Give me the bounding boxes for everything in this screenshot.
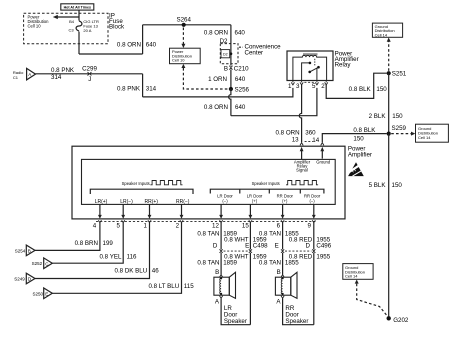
power amplifier outer box xyxy=(72,146,345,219)
svg-text:5 BLK: 5 BLK xyxy=(369,182,387,189)
amp bottom connector dashes xyxy=(96,220,316,222)
wire through convenience center xyxy=(230,44,232,66)
fuse F13 CIG LTR 20A xyxy=(76,21,82,31)
svg-text:0.8 LT BLU: 0.8 LT BLU xyxy=(148,283,179,290)
connector C496 pin E xyxy=(281,249,284,253)
arrow LR(+) out xyxy=(99,204,101,215)
wire across xyxy=(79,53,143,55)
wire 0.8 TAN 1859 to speaker B xyxy=(220,253,222,275)
svg-text:15: 15 xyxy=(242,223,249,230)
wire 0.8 TAN 1855 pin6 xyxy=(282,223,284,250)
svg-text:Cell 10: Cell 10 xyxy=(172,58,185,63)
svg-text:B: B xyxy=(215,269,219,276)
wire from hot bus to fuse xyxy=(78,10,80,21)
svg-text:14: 14 xyxy=(312,137,319,144)
wire 0.8 RED 1955 down xyxy=(313,253,315,325)
svg-text:E: E xyxy=(275,242,279,249)
svg-text:115: 115 xyxy=(184,283,194,290)
dashed ref S264 to power distribution cell 10 xyxy=(182,28,184,45)
wire 0.8 TAN 1855 to speaker B xyxy=(282,253,284,275)
svg-text:314: 314 xyxy=(146,85,157,92)
dashed ref S251 to ground distribution xyxy=(388,42,390,71)
svg-text:C498: C498 xyxy=(253,242,268,249)
ref box Power Distribution Cell 10 xyxy=(170,48,201,64)
amp pin 13 xyxy=(300,143,303,146)
svg-text:B4: B4 xyxy=(69,19,75,24)
relay pin 1 xyxy=(291,81,294,85)
svg-text:S264: S264 xyxy=(176,16,191,23)
amp pin 14 xyxy=(321,143,324,146)
amp pin 6 xyxy=(281,220,284,222)
svg-text:Speaker: Speaker xyxy=(285,318,308,325)
svg-text:640: 640 xyxy=(235,76,246,83)
wire fuse down xyxy=(78,32,80,54)
splice S259 xyxy=(387,132,391,136)
connector triangle D xyxy=(26,273,35,284)
relay pin 3 xyxy=(300,81,303,85)
svg-text:116: 116 xyxy=(127,254,137,261)
svg-text:Speaker Inputs: Speaker Inputs xyxy=(252,181,280,186)
radio connector triangle A xyxy=(27,68,36,80)
svg-text:150: 150 xyxy=(353,135,364,142)
amp pin 2 xyxy=(180,220,183,222)
wire PNK to relay pin 1 xyxy=(143,88,293,97)
connector C210 pin B xyxy=(229,66,232,70)
svg-text:5: 5 xyxy=(117,223,121,230)
splice S264 xyxy=(182,23,186,27)
dashed ref G202 to ground distribution xyxy=(355,280,359,284)
arrow LR(-) out xyxy=(122,204,124,215)
svg-text:360: 360 xyxy=(305,129,316,136)
ref box Ground Distribution Cell 14 (bottom) xyxy=(343,264,373,280)
amp pin 4 xyxy=(98,220,101,222)
amp pin 1 xyxy=(148,220,151,222)
svg-text:D2: D2 xyxy=(223,53,228,57)
hot-at-all-times flag xyxy=(61,4,94,10)
arrow LR Door (-) out xyxy=(220,204,222,215)
svg-text:1 ORN: 1 ORN xyxy=(208,76,227,83)
svg-text:D: D xyxy=(213,242,218,249)
connector dashes C498 xyxy=(224,250,249,252)
svg-text:D: D xyxy=(306,242,311,249)
svg-text:Speaker Inputs: Speaker Inputs xyxy=(122,181,150,186)
svg-text:Amplifier: Amplifier xyxy=(348,151,372,158)
svg-text:1955: 1955 xyxy=(316,253,330,260)
svg-text:S251: S251 xyxy=(392,71,407,78)
svg-text:S259: S259 xyxy=(392,125,407,132)
connector dashes C496 xyxy=(285,250,311,252)
arrow RR(+) out xyxy=(149,204,151,215)
svg-text:0.8 ORN: 0.8 ORN xyxy=(276,129,300,136)
relay connector dashes xyxy=(304,81,314,83)
wire 0.8 WHT 1959 down xyxy=(249,253,251,325)
diode D2 xyxy=(221,50,232,58)
amp pin 5 xyxy=(122,220,125,222)
wire 0.8 RED 1955 pin9 xyxy=(313,223,315,250)
svg-text:46: 46 xyxy=(152,268,159,275)
svg-text:0.8 TAN: 0.8 TAN xyxy=(197,230,219,237)
dashed ref S259 to ground distribution xyxy=(391,133,411,135)
amp pin 12 xyxy=(220,220,223,222)
svg-text:Hot At All Times: Hot At All Times xyxy=(64,6,91,10)
svg-text:1855: 1855 xyxy=(285,259,299,266)
svg-text:0.8 TAN: 0.8 TAN xyxy=(259,259,281,266)
svg-text:Cell 14: Cell 14 xyxy=(375,33,388,38)
svg-text:0.8 YEL: 0.8 YEL xyxy=(99,254,121,261)
svg-text:20 A: 20 A xyxy=(83,28,91,33)
svg-text:6: 6 xyxy=(277,223,281,230)
svg-text:640: 640 xyxy=(146,41,157,48)
amp pin 15 xyxy=(249,220,252,222)
speaker terminal B xyxy=(220,275,223,277)
svg-text:0.8 BLK: 0.8 BLK xyxy=(349,86,372,93)
svg-text:2 BLK: 2 BLK xyxy=(369,113,387,120)
LR door speaker xyxy=(214,272,236,298)
svg-text:2: 2 xyxy=(176,223,180,230)
svg-text:640: 640 xyxy=(235,104,246,111)
svg-text:Center: Center xyxy=(245,49,264,56)
svg-text:150: 150 xyxy=(376,86,387,93)
svg-text:Block: Block xyxy=(109,24,125,31)
amplifier relay signal input arrow xyxy=(301,150,303,159)
svg-text:0.8 TAN: 0.8 TAN xyxy=(259,230,281,237)
svg-text:E: E xyxy=(245,242,249,249)
dashed ref box to S256 xyxy=(181,64,185,68)
amp pin 9 xyxy=(312,220,315,222)
svg-text:0.8 PNK: 0.8 PNK xyxy=(117,85,141,92)
svg-text:Signal: Signal xyxy=(296,168,308,173)
svg-text:0.8 BRN: 0.8 BRN xyxy=(75,240,98,247)
ref box Ground Distribution Cell 14 (top) xyxy=(372,23,402,37)
splice S251 xyxy=(387,71,391,75)
connector C498 pin D xyxy=(220,249,223,253)
svg-text:(−): (−) xyxy=(222,198,228,203)
svg-text:5: 5 xyxy=(312,83,316,90)
wire relay pin3 ORN 360 to amp pin 13 (hop) xyxy=(299,85,301,142)
svg-text:C1: C1 xyxy=(13,75,19,80)
wire 0.8 BLK 150 amp pin14 to S259 xyxy=(322,134,386,143)
relay pin 2 xyxy=(325,81,328,85)
wire 2 BLK 150 xyxy=(388,73,390,133)
ground input arrow xyxy=(321,150,323,159)
wire 0.8 YEL 116 pin5 to C xyxy=(52,223,123,264)
svg-text:(+): (+) xyxy=(282,198,288,203)
svg-text:0.8 BLK: 0.8 BLK xyxy=(353,127,376,134)
RR door speaker xyxy=(275,272,297,298)
ref box Ground Distribution Cell 14 (middle) xyxy=(416,124,449,142)
svg-text:(+): (+) xyxy=(252,198,258,203)
svg-text:13: 13 xyxy=(292,137,299,144)
svg-text:640: 640 xyxy=(235,29,246,36)
convenience center (dashed box) xyxy=(220,44,238,64)
speaker terminal A xyxy=(281,296,284,298)
wire speaker A return xyxy=(283,298,314,325)
IP fuse block (dashed box) xyxy=(24,13,108,43)
svg-text:LR(+): LR(+) xyxy=(95,199,108,205)
svg-text:0.8 ORN: 0.8 ORN xyxy=(204,29,228,36)
wire top bus xyxy=(143,24,231,26)
connector triangle E xyxy=(44,288,53,299)
svg-text:0.8 DK BLU: 0.8 DK BLU xyxy=(115,268,148,275)
svg-text:Cell 10: Cell 10 xyxy=(28,24,42,29)
ESD symbol xyxy=(347,162,365,176)
svg-text:RR(−): RR(−) xyxy=(176,199,190,205)
arrow to power distribution xyxy=(58,16,80,18)
svg-text:E: E xyxy=(45,292,48,297)
wire 5 BLK 150 to G202 xyxy=(388,134,390,317)
speaker terminal A xyxy=(220,296,223,298)
arrow RR Door (-) out xyxy=(313,204,315,215)
amp top connector dashes xyxy=(305,140,313,142)
svg-text:RR(+): RR(+) xyxy=(145,199,159,205)
svg-text:LR(−): LR(−) xyxy=(120,199,133,205)
svg-text:(−): (−) xyxy=(309,198,315,203)
connector C496 pin D xyxy=(312,249,315,253)
svg-text:314: 314 xyxy=(51,74,62,81)
svg-text:S254: S254 xyxy=(15,248,26,253)
power amplifier inner box xyxy=(82,159,336,204)
connector triangle C xyxy=(44,258,53,269)
relay K1 power amplifier relay xyxy=(287,51,333,81)
svg-text:1: 1 xyxy=(144,223,148,230)
svg-text:D2: D2 xyxy=(220,38,228,45)
wire 0.8 BRN 199 pin4 to B xyxy=(35,223,100,251)
svg-text:1: 1 xyxy=(288,83,292,90)
wire PNK down xyxy=(142,74,144,97)
comb bracket (right) xyxy=(210,189,324,193)
svg-text:4: 4 xyxy=(93,223,97,230)
wire ORN to relay pin 5 xyxy=(231,88,317,116)
wire 0.8 ORN 640 riser xyxy=(142,25,144,54)
splice S256 xyxy=(229,87,233,91)
svg-text:3: 3 xyxy=(296,83,300,90)
svg-text:150: 150 xyxy=(392,182,403,189)
arrow RR(-) out xyxy=(181,204,183,215)
wire 0.8 DK BLU 46 pin1 to D xyxy=(35,223,150,279)
svg-text:12: 12 xyxy=(212,223,219,230)
wire S256 down with hop over PNK xyxy=(229,89,231,116)
svg-text:Ground: Ground xyxy=(316,160,331,165)
wire speaker A return xyxy=(221,298,250,325)
wire 0.8 TAN 1859 pin12 xyxy=(220,223,222,250)
connector C498 pin E xyxy=(249,249,252,253)
svg-text:Speaker: Speaker xyxy=(224,318,247,325)
wire 0.8 WHT 1959 pin15 xyxy=(249,223,251,250)
svg-text:0.8 RED: 0.8 RED xyxy=(289,253,313,260)
svg-text:G202: G202 xyxy=(393,317,409,324)
svg-text:Cell 14: Cell 14 xyxy=(345,274,358,279)
svg-text:2: 2 xyxy=(321,83,325,90)
bracket (left) xyxy=(90,189,193,194)
svg-text:C210: C210 xyxy=(234,65,249,72)
connector triangle B xyxy=(26,245,35,256)
waveform (left) xyxy=(150,181,182,185)
svg-text:0.8 ORN: 0.8 ORN xyxy=(204,104,228,111)
svg-text:0.8 PNK: 0.8 PNK xyxy=(51,67,75,74)
svg-text:C3: C3 xyxy=(68,27,74,32)
svg-text:199: 199 xyxy=(103,240,114,247)
speaker terminal B xyxy=(281,275,284,277)
svg-text:S250: S250 xyxy=(32,291,43,296)
relay pin 5 xyxy=(315,81,318,85)
ground G202 xyxy=(387,316,391,320)
svg-text:S256: S256 xyxy=(235,87,250,94)
svg-text:C496: C496 xyxy=(316,242,331,249)
svg-text:1859: 1859 xyxy=(223,259,237,266)
svg-text:S252: S252 xyxy=(32,261,43,266)
svg-text:Cell 14: Cell 14 xyxy=(418,135,431,140)
wire 0.8 PNK 314 from radio xyxy=(36,73,143,75)
wire 0.8 ORN 640 drop to D2 xyxy=(230,25,232,44)
waveform (right) xyxy=(286,181,318,185)
arrow LR Door (+) out xyxy=(249,204,251,215)
wire 1 ORN 640 xyxy=(230,70,232,87)
wire relay pin2 BLK to S251 xyxy=(326,73,386,98)
arrow RR Door (+) out xyxy=(282,204,284,215)
svg-text:0.8 ORN: 0.8 ORN xyxy=(117,41,141,48)
svg-text:9: 9 xyxy=(308,223,312,230)
svg-text:B: B xyxy=(28,249,31,254)
svg-text:B: B xyxy=(277,269,281,276)
svg-text:150: 150 xyxy=(392,113,403,120)
svg-text:0.8 TAN: 0.8 TAN xyxy=(197,259,219,266)
svg-text:B: B xyxy=(224,65,228,72)
svg-text:C299: C299 xyxy=(82,66,97,73)
svg-text:0.8 WHT: 0.8 WHT xyxy=(224,253,249,260)
wire 0.8 LT BLU 115 pin2 to E xyxy=(52,223,181,294)
connector C299 pin J xyxy=(88,72,92,75)
svg-text:A: A xyxy=(28,72,31,77)
svg-text:J: J xyxy=(88,76,91,83)
svg-text:S249: S249 xyxy=(14,277,25,282)
svg-text:Relay: Relay xyxy=(335,62,352,69)
